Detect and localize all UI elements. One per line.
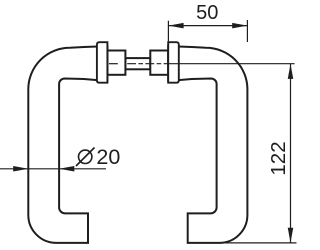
arrowhead left of dim 50 xyxy=(168,23,183,29)
arrowhead right of dim 50 xyxy=(232,23,247,29)
extension line bottom of dim 122 xyxy=(214,242,297,244)
extension line right of dim 50 xyxy=(246,20,248,42)
rose collar right (bearing collar of right handle) xyxy=(150,51,168,75)
spindle axis centerline (dashed) xyxy=(127,63,168,65)
arrowhead right of dim 20 (points left at tube inner edge) xyxy=(59,166,74,172)
diameter symbol of dim 20 xyxy=(76,148,95,167)
svg-text:20: 20 xyxy=(96,145,120,169)
dimension leader line diameter 20 xyxy=(0,168,106,170)
spindle axis centerline (dash inside left collar) xyxy=(109,63,118,65)
dimension line 50 (horizontal) xyxy=(168,25,247,27)
rose collar left (bearing collar of left handle) xyxy=(107,51,125,75)
extension line top of dim 122 (handle axis to dimension line) xyxy=(168,63,294,65)
extension line left of dim 50 xyxy=(167,21,169,45)
dimension line 122 (vertical) xyxy=(290,64,292,243)
right lever handle body (grip, bend and foot) xyxy=(168,46,247,243)
arrowhead left of dim 20 (points right at tube edge) xyxy=(13,166,28,172)
svg-text:122: 122 xyxy=(267,141,290,175)
arrowhead up of dim 122 xyxy=(288,64,294,79)
right neck lip ring xyxy=(168,42,179,82)
svg-text:50: 50 xyxy=(196,2,218,24)
left lever handle body (grip, bend and foot) xyxy=(28,46,107,243)
left neck lip ring xyxy=(97,42,108,82)
spindle S1 (square spindle bar between handles) xyxy=(125,58,150,69)
arrowhead down of dim 122 xyxy=(288,228,294,243)
